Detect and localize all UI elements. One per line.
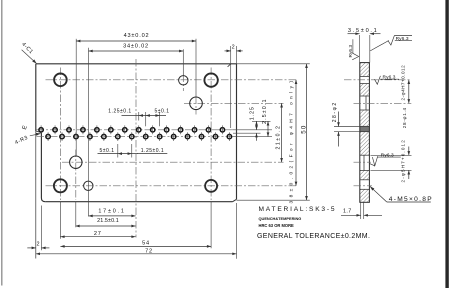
svg-text:28-φ1.4: 28-φ1.4: [402, 107, 407, 128]
svg-text:HRC 63 OR MORE: HRC 63 OR MORE: [259, 223, 295, 228]
roughness symbol mid (hole row): [375, 76, 400, 84]
svg-text:1.25±0.1: 1.25±0.1: [141, 148, 164, 154]
bottom-right chamfer: [233, 199, 237, 201]
svg-text:Ry6.3: Ry6.3: [383, 75, 396, 81]
svg-text:54: 54: [142, 241, 150, 247]
dim 21: [281, 103, 283, 162]
dim 27: [60, 236, 135, 238]
left edge step: [36, 131, 42, 133]
plate left edge lower: [41, 133, 45, 202]
dim 2-phi5H7: [408, 147, 410, 156]
dim 1.7: [341, 214, 361, 216]
plate left edge upper: [35, 64, 37, 131]
dim 2-phi4H7: [408, 80, 410, 104]
svg-text:1.25: 1.25: [250, 106, 256, 120]
section bar hatched blocks: [360, 63, 370, 77]
dim 54: [60, 245, 211, 247]
svg-text:38±0.02(For φ4H7 only): 38±0.02(For φ4H7 only): [288, 78, 294, 204]
dim 1.25 right: [256, 121, 258, 130]
svg-text:1.7: 1.7: [343, 209, 352, 215]
comb row upper centerline: [37, 129, 235, 131]
hole gap edges in section: [360, 76, 370, 78]
right small-dim extension lines: [233, 129, 272, 131]
dim 21.5: [76, 225, 136, 227]
svg-text:2-φ5H7+0.012: 2-φ5H7+0.012: [400, 139, 405, 182]
svg-text:28-φ2: 28-φ2: [332, 101, 338, 122]
svg-text:1.25±0.1: 1.25±0.1: [108, 108, 131, 114]
svg-text:4-M5×0.8P: 4-M5×0.8P: [389, 196, 433, 203]
counterbore steps: [363, 155, 365, 170]
vertical centerline x=60.4: [59, 68, 61, 201]
dim 2 bottom: [27, 247, 36, 249]
arrowheads front view: [32, 40, 308, 256]
roughness symbol top-right: [370, 36, 412, 51]
plate right edge: [236, 64, 238, 200]
centerline hole4 y=103: [184, 102, 284, 104]
extension lines (solid thin): [41, 39, 272, 259]
svg-text:5±0.1: 5±0.1: [100, 148, 115, 154]
section extension lines: [334, 35, 412, 219]
plate vertical centerline x=134.7: [135, 59, 137, 238]
leader 4-C1: [22, 50, 41, 136]
vertical tick hole4: [195, 97, 197, 115]
dim 50: [306, 64, 308, 200]
sheet border left: [1, 0, 3, 286]
svg-text:3.5±0.1: 3.5±0.1: [348, 28, 379, 34]
svg-text:2: 2: [37, 241, 40, 247]
section bar outline: [360, 63, 370, 203]
hole bottom small: [84, 181, 93, 190]
vertical centerline x=211.1: [210, 68, 212, 201]
dim row lower 5 / 1.25: [98, 153, 139, 155]
svg-text:Ry6.3: Ry6.3: [396, 36, 409, 42]
svg-text:Ry6.3: Ry6.3: [381, 153, 394, 159]
dim 28-phi2: [338, 112, 340, 127]
hole phi4 middle: [190, 97, 203, 110]
svg-text:50: 50: [301, 125, 308, 134]
dimension lines: [27, 41, 306, 254]
holes: [54, 73, 218, 192]
svg-text:27: 27: [94, 231, 102, 237]
plate bottom edge: [45, 201, 232, 203]
rotated dimension texts: [250, 78, 308, 204]
hole phi5 left: [70, 156, 82, 168]
svg-text:5±0.1: 5±0.1: [155, 108, 170, 114]
left edge extension line down (for 2 / 72 dims): [35, 131, 37, 259]
hole M5 bottom-right: [205, 180, 217, 192]
svg-text:43±0.02: 43±0.02: [124, 33, 150, 39]
roughness symbol left (rotated): [352, 39, 359, 60]
dim 17: [89, 215, 136, 217]
svg-text:QUENCH&TEMPERING: QUENCH&TEMPERING: [259, 216, 302, 221]
comb lower dim extensions: [117, 144, 119, 158]
centerline hole row y=80: [46, 79, 297, 81]
svg-text:2-φ4H7+0.012: 2-φ4H7+0.012: [400, 65, 405, 101]
svg-text:GENERAL TOLERANCE±0.2MM.: GENERAL TOLERANCE±0.2MM.: [257, 233, 370, 240]
svg-text:17±0.1: 17±0.1: [98, 209, 125, 215]
dim 72: [36, 253, 237, 255]
dim 2.5 right: [267, 121, 269, 136]
dim row upper 1.25 / 5: [122, 115, 167, 117]
comb row of 28 small holes: [39, 128, 232, 139]
comb row lower centerline: [37, 136, 235, 138]
hole M5 bottom-left: [54, 179, 67, 192]
roughness symbol lower (phi5 hole): [370, 156, 401, 166]
dimension texts: [37, 33, 236, 254]
svg-text:21.5±0.1: 21.5±0.1: [97, 218, 119, 224]
long centerlines: [37, 59, 298, 238]
centerline bottom hole row y=186: [46, 185, 298, 187]
vertical centerline hole5: [75, 150, 77, 201]
dim 2 top: [225, 50, 231, 52]
label 4-M5x0.8P: [370, 186, 431, 202]
section dimension lines: [339, 34, 409, 216]
dim 38: [295, 80, 297, 186]
centerline hole5 y=162: [62, 161, 284, 163]
vertical tick hole2: [182, 75, 184, 92]
top-right small chamfer tick: [228, 64, 231, 67]
svg-text:21±0.2: 21±0.2: [276, 125, 282, 150]
hole M5 top-left: [54, 74, 67, 87]
comb upper dim extensions: [138, 112, 140, 121]
comb slot dark band: [360, 126, 370, 131]
plate top edge (with extension to 50-dim): [36, 63, 237, 65]
svg-text:2: 2: [232, 44, 235, 50]
dim 43: [76, 40, 196, 42]
hole top-middle: [179, 76, 188, 85]
sheet border right: [445, 0, 448, 288]
svg-text:34±0.02: 34±0.02: [123, 44, 149, 50]
svg-text:2.5±0.1: 2.5±0.1: [262, 98, 268, 124]
dim 34: [89, 50, 184, 52]
bottom extension to 50-dim: [237, 199, 310, 201]
section centerlines: [344, 80, 411, 186]
svg-text:Ry6.3: Ry6.3: [348, 45, 354, 58]
dim 3.5: [348, 33, 360, 35]
svg-text:MATERIAL:SK3-5: MATERIAL:SK3-5: [259, 206, 337, 213]
svg-text:72: 72: [145, 248, 153, 254]
hole M5 top-right: [204, 73, 217, 86]
